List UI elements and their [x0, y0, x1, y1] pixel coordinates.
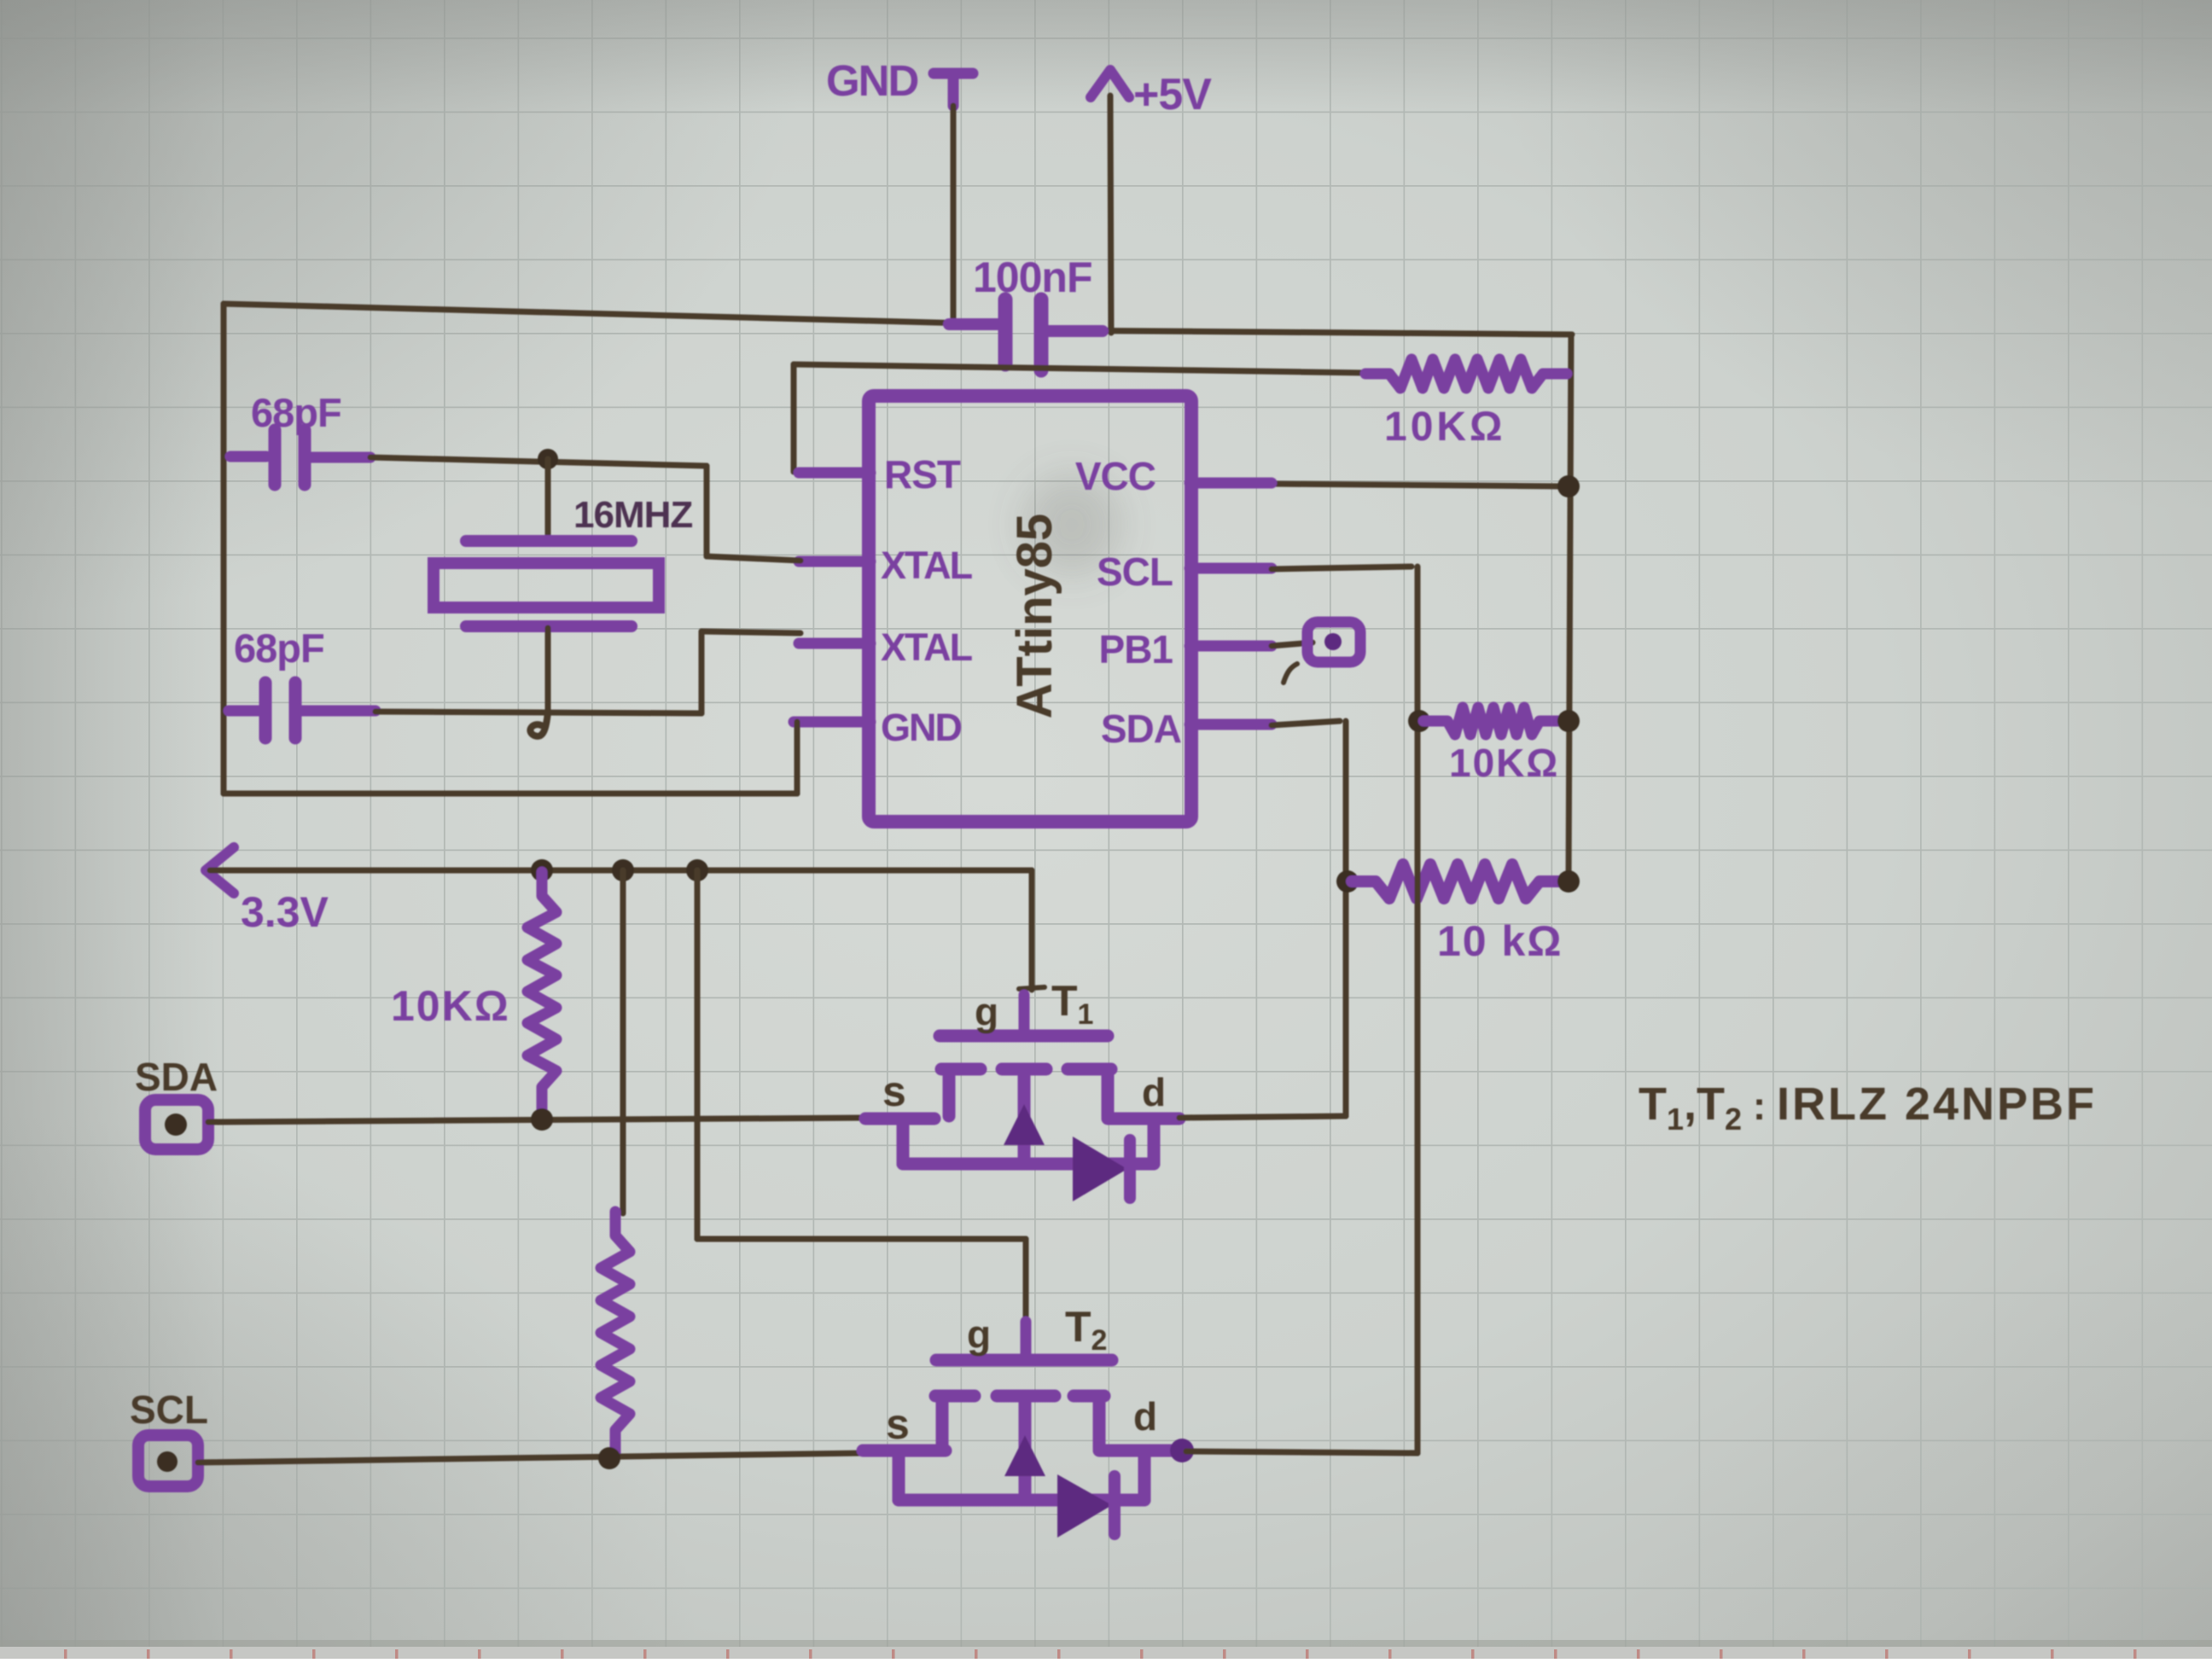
pin label VCC: [1075, 454, 1155, 498]
svg-text:10KΩ: 10KΩ: [1449, 741, 1559, 785]
ground symbol GND: [934, 73, 973, 106]
capacitor C2 68pF: [224, 430, 370, 485]
wire C2 to XTAL1: [370, 457, 800, 561]
value label R1 10KΩ: [1384, 404, 1506, 450]
pin VCC stub: [1190, 478, 1272, 489]
wire SDA pin to vertical: [1272, 721, 1346, 1116]
pin label XTAL2: [881, 625, 973, 669]
value label 16MHZ: [573, 494, 692, 536]
capacitor C1 100nF: [949, 299, 1103, 370]
junction 3.3V rail C: [686, 859, 708, 881]
port pad SDA: [145, 1100, 208, 1149]
wire +5V rail right vertical: [1569, 334, 1571, 881]
svg-text:g: g: [967, 1312, 991, 1357]
wire SDA line: [208, 1118, 865, 1122]
svg-text:10KΩ: 10KΩ: [391, 982, 510, 1030]
svg-text:ATtiny85: ATtiny85: [1007, 514, 1062, 719]
junction crystal top: [538, 449, 558, 469]
value label R4 10 kΩ: [1437, 917, 1563, 965]
pin label T2 g: [967, 1312, 991, 1357]
port pad SCL: [138, 1435, 198, 1486]
pin GND stub: [794, 717, 870, 728]
svg-text:XTAL: XTAL: [881, 544, 973, 587]
wire top rail left segment: [224, 304, 1000, 324]
junction SCL pull-up: [598, 1447, 620, 1469]
pin label PB1: [1099, 627, 1173, 672]
transistor T2 IRLZ24NPBF: [863, 1360, 1194, 1538]
svg-text:68pF: 68pF: [251, 390, 341, 435]
svg-text:GND: GND: [826, 56, 918, 105]
wire T2 drain to SCL vertical: [1186, 1451, 1417, 1453]
pin label GND: [881, 706, 962, 749]
wire 3.3V to T1 gate: [1019, 870, 1045, 990]
wire crystal top: [545, 459, 551, 539]
resistor R3 10KΩ SCL pull-up 3.3V: [601, 1212, 630, 1454]
svg-text:s: s: [886, 1400, 910, 1448]
crystal Y1 16MHz: [434, 541, 659, 626]
svg-text:SDA: SDA: [1101, 706, 1181, 751]
port pad PB1: [1307, 622, 1360, 662]
net label +5V: [1133, 70, 1212, 119]
svg-text:10 kΩ: 10 kΩ: [1437, 917, 1563, 965]
junction SCL 5V pull-up right: [1557, 710, 1580, 732]
pin RST stub: [799, 468, 870, 479]
wire GND pin down: [795, 722, 800, 794]
wire PB1 to pad: [1272, 643, 1313, 646]
wire 3.3V to R3: [620, 870, 626, 1213]
op-amp U1 ATtiny85 body: [869, 396, 1191, 822]
wire GND symbol to top rail: [951, 106, 957, 323]
resistor R4 10kΩ SDA pull-up 5V: [1352, 864, 1563, 898]
net label 3.3V: [241, 888, 329, 936]
power symbol 3.3V arrow: [206, 847, 234, 893]
pin label SDA: [1101, 706, 1181, 751]
pin label XTAL1: [881, 544, 973, 587]
note T1 T2 IRLZ24NPBF: [1639, 1079, 2097, 1137]
svg-text:d: d: [1142, 1070, 1166, 1114]
junction VCC rail: [1557, 475, 1580, 497]
wire 3.3V rail: [210, 868, 1032, 874]
transistor T2 gate tick: [1021, 1322, 1032, 1358]
value label R5 10KΩ: [1449, 741, 1559, 785]
pin number 1 mark: [1284, 664, 1297, 683]
value label R2 10KΩ: [391, 982, 510, 1030]
resistor R1 10KΩ: [1365, 359, 1567, 388]
value label C3 68pF: [234, 625, 324, 671]
pin label T2 d: [1133, 1394, 1157, 1439]
pin label T1 g: [975, 990, 998, 1034]
junction SDA 5V pull-up left: [1336, 870, 1359, 893]
junction SCL 5V pull-up left: [1408, 710, 1430, 732]
part label ATtiny85: [1007, 514, 1062, 719]
wire VCC to +5V rail: [1272, 484, 1567, 486]
pin label RST: [884, 452, 961, 497]
port label SCL: [130, 1387, 208, 1432]
svg-text:16MHZ: 16MHZ: [573, 494, 692, 536]
pin label T1 s: [882, 1067, 906, 1115]
wire left rail vertical: [221, 304, 227, 794]
resistor R5 10KΩ SCL pull-up 5V: [1423, 707, 1563, 735]
pin SCL stub: [1190, 563, 1272, 574]
svg-text:3.3V: 3.3V: [241, 888, 329, 936]
wire top rail right segment: [1046, 330, 1572, 334]
junction 3.3V rail B: [612, 859, 634, 881]
wire crystal bottom: [530, 628, 548, 736]
wire RST to pull-up: [794, 364, 1365, 472]
pin XTAL1 stub: [799, 556, 870, 567]
svg-text:SCL: SCL: [130, 1387, 208, 1432]
wire 3.3V to T2 gate: [697, 870, 1026, 1321]
net label GND: [826, 56, 918, 105]
svg-text:100nF: 100nF: [973, 253, 1092, 301]
svg-text:PB1: PB1: [1099, 627, 1173, 672]
wire +5V to top rail: [1110, 96, 1111, 333]
wire bottom GND return: [224, 791, 797, 797]
pin PB1 stub: [1190, 641, 1272, 652]
svg-text:SCL: SCL: [1097, 549, 1173, 594]
wire SCL pin to vertical: [1272, 567, 1417, 1453]
wire T1 drain to SDA vertical: [1179, 1116, 1346, 1118]
pin XTAL2 stub: [799, 638, 870, 649]
svg-text:SDA: SDA: [135, 1055, 218, 1099]
designator T2: [1065, 1303, 1107, 1357]
transistor T1 IRLZ24NPBF: [865, 1036, 1179, 1201]
wire SCL line: [198, 1453, 863, 1462]
svg-text:XTAL: XTAL: [881, 625, 973, 669]
svg-text:68pF: 68pF: [234, 625, 324, 671]
svg-text:g: g: [975, 990, 998, 1034]
svg-text:d: d: [1133, 1394, 1157, 1439]
transistor T1 gate tick: [1019, 995, 1030, 1034]
designator T1: [1051, 977, 1093, 1031]
wire C3 to XTAL2: [375, 631, 800, 713]
svg-text:RST: RST: [884, 452, 961, 497]
pin label SCL: [1097, 549, 1173, 594]
value label C2 68pF: [251, 390, 341, 435]
svg-text:10KΩ: 10KΩ: [1384, 404, 1506, 450]
svg-text:T1,T2 : IRLZ 24NPBF: T1,T2 : IRLZ 24NPBF: [1639, 1079, 2097, 1137]
svg-text:s: s: [882, 1067, 906, 1115]
svg-text:+5V: +5V: [1133, 70, 1212, 119]
pin label T1 d: [1142, 1070, 1166, 1114]
pin SDA stub: [1190, 719, 1272, 730]
junction SDA pull-up: [531, 1108, 553, 1131]
port label SDA: [135, 1055, 218, 1099]
resistor R2 10KΩ SDA pull-up 3.3V: [527, 872, 556, 1111]
junction SDA 5V pull-up right: [1557, 870, 1580, 893]
power symbol +5V arrow: [1091, 70, 1129, 97]
capacitor C3 68pF: [224, 683, 375, 738]
pin label T2 s: [886, 1400, 910, 1448]
svg-text:VCC: VCC: [1075, 454, 1155, 498]
value label 100nF: [973, 253, 1092, 301]
svg-text:GND: GND: [881, 706, 962, 749]
junction 3.3V rail A: [531, 859, 553, 881]
